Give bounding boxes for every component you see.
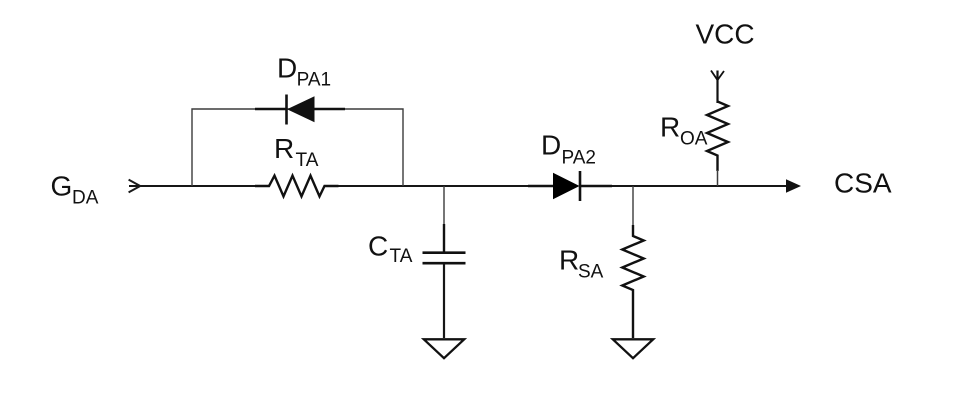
svg-text:R: R: [559, 245, 579, 276]
svg-text:VCC: VCC: [696, 19, 755, 50]
svg-text:PA2: PA2: [562, 148, 597, 169]
svg-text:R: R: [660, 112, 680, 143]
svg-text:OA: OA: [680, 129, 708, 150]
svg-text:TA: TA: [390, 246, 413, 267]
svg-text:DA: DA: [72, 188, 99, 209]
svg-text:TA: TA: [296, 150, 319, 171]
svg-text:R: R: [274, 133, 294, 164]
svg-text:D: D: [277, 53, 297, 84]
svg-text:C: C: [368, 231, 388, 262]
svg-text:SA: SA: [578, 262, 604, 283]
svg-text:PA1: PA1: [297, 70, 332, 91]
svg-text:G: G: [51, 171, 73, 202]
svg-text:CSA: CSA: [834, 168, 892, 199]
svg-text:D: D: [541, 130, 561, 161]
